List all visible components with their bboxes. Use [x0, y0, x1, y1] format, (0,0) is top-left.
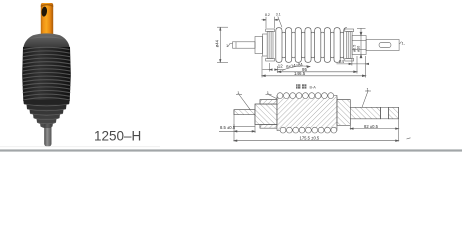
svg-text:3.1: 3.1: [276, 13, 281, 17]
model label 1250-H: [94, 128, 141, 143]
callout 0.2 above ring: [262, 13, 280, 28]
product photo: bellows ridges: [22, 47, 71, 100]
leader 3 at shaft: [362, 86, 371, 107]
svg-text:1,: 1,: [402, 41, 405, 46]
svg-text:1: 1: [237, 90, 240, 95]
svg-text:12: 12: [278, 64, 283, 69]
dimension Φ44 vertical line with arrows: [217, 27, 228, 62]
clamp ring (left bellows end): [266, 29, 275, 61]
slot in tongue: [379, 42, 391, 47]
svg-text:B-A: B-A: [310, 85, 317, 89]
vertical dimension at boss: [353, 28, 366, 58]
svg-text:ø44: ø44: [215, 39, 220, 47]
valley connectors: [282, 32, 286, 33]
callout 3.1 leader to first convolution: [276, 13, 282, 28]
leader 1 (left sleeve): [236, 90, 253, 113]
svg-text:8.2: 8.2: [265, 13, 270, 17]
dimension 8.5 ±0.5: [219, 124, 255, 142]
product photo: dark spot on cap: [41, 6, 48, 17]
leader 1 at rod: [226, 43, 233, 48]
dimension 12: [263, 63, 285, 73]
svg-text:1: 1: [267, 90, 270, 95]
bottom rule: [0, 149, 462, 151]
leader 1 at tongue end: [400, 41, 405, 46]
svg-text:82 ±0.5: 82 ±0.5: [364, 124, 379, 129]
corrugated bellows section (hatched core): [277, 95, 337, 130]
svg-text:6×14=84: 6×14=84: [286, 62, 304, 70]
svg-text:1: 1: [367, 86, 370, 91]
product photo: orange cap: [41, 3, 53, 37]
leader 2 (clamp block): [266, 90, 305, 114]
right clamp block (hatched): [337, 100, 350, 126]
svg-text:ø16: ø16: [356, 46, 360, 52]
product photo: step rim highlights: [24, 104, 69, 124]
caption 剖面 B-A: [296, 84, 316, 89]
left sleeve (bushing, half-hatched): [234, 110, 255, 127]
dimension 24: [337, 59, 370, 66]
rod (threaded stud, left): [233, 42, 256, 48]
svg-text:8.5 ±0.5: 8.5 ±0.5: [220, 125, 236, 130]
dimension 95: [278, 56, 357, 74]
label Φ44 (rotated): [215, 39, 220, 47]
right clamp ring: [345, 29, 354, 61]
bellows convolutions (side view): [276, 28, 347, 63]
photo area bottom faint edge: [0, 145, 160, 148]
right boss: [352, 36, 366, 55]
tongue (flat end with slot): [366, 40, 399, 51]
dimension 146.5: [262, 56, 366, 78]
svg-text:175.5 ±0.5: 175.5 ±0.5: [300, 135, 320, 140]
svg-text:146.5: 146.5: [294, 71, 306, 76]
dimension 82 ±0.5: [350, 119, 398, 142]
product photo: bellows body: [22, 47, 71, 101]
product photo: top dome of bellows: [23, 33, 70, 50]
coil circles top row: [277, 93, 334, 99]
dimension 175.5 ±0.5: [234, 135, 411, 141]
note 6x14=84 (slanted): [282, 62, 310, 71]
clamp block (hatched): [255, 100, 277, 129]
svg-text:24: 24: [339, 59, 344, 64]
coil circles bottom row: [280, 127, 337, 133]
product photo: bottom rod: [44, 124, 51, 146]
flange block: [255, 34, 267, 56]
svg-text:1250–H: 1250–H: [94, 128, 141, 143]
right shaft (hatched): [350, 107, 398, 119]
product photo: stepped cones at bottom: [23, 100, 69, 128]
